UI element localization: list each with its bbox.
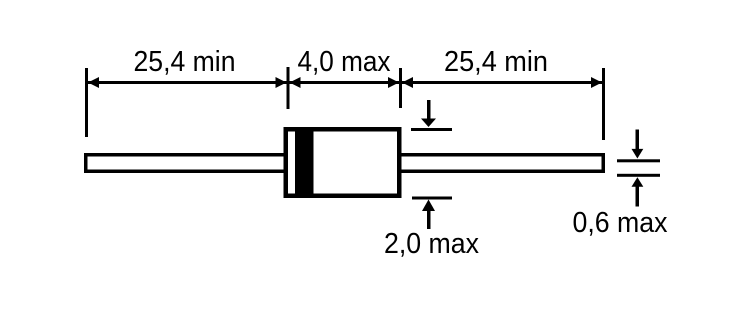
svg-text:0,6 max: 0,6 max: [573, 207, 668, 239]
svg-text:25,4 min: 25,4 min: [134, 46, 236, 78]
svg-text:25,4 min: 25,4 min: [444, 46, 548, 78]
svg-text:4,0 max: 4,0 max: [298, 46, 391, 78]
svg-text:2,0 max: 2,0 max: [384, 228, 479, 260]
